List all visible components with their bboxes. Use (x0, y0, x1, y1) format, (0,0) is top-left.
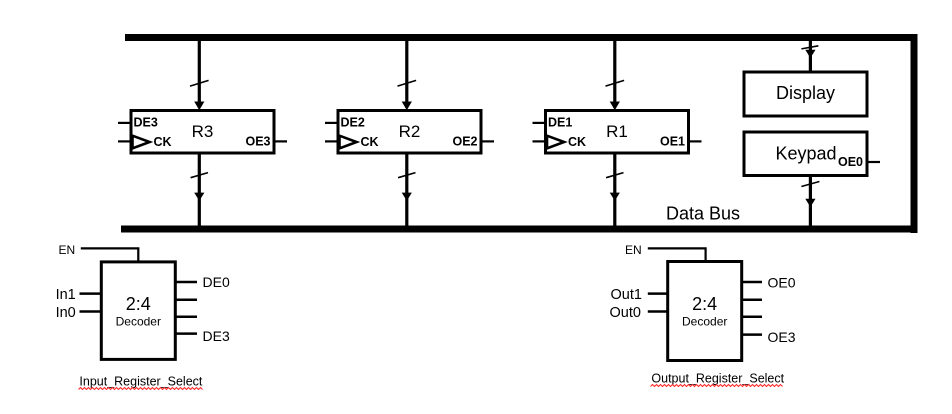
wire OE2 stub (742, 316, 762, 319)
svg-text:DE2: DE2 (341, 116, 365, 130)
svg-text:OE3: OE3 (245, 135, 270, 149)
block Display (744, 72, 867, 116)
svg-text:Keypad: Keypad (776, 144, 837, 164)
svg-text:R3: R3 (192, 122, 214, 141)
svg-text:DE3: DE3 (134, 116, 158, 130)
svg-text:Out0: Out0 (610, 305, 641, 321)
decoder Input_Register_Select (101, 262, 175, 360)
svg-text:OE0: OE0 (838, 155, 863, 169)
register R1 (533, 111, 702, 154)
svg-text:Data Bus: Data Bus (666, 204, 740, 224)
wire EN to output decoder (648, 248, 706, 261)
wire R2 output to bus (398, 153, 415, 226)
wire DE1 stub (175, 299, 197, 302)
svg-text:Output_Register_Select: Output_Register_Select (651, 372, 784, 386)
svg-text:In0: In0 (56, 305, 76, 321)
data bus right segment (911, 34, 918, 233)
wire OE1 stub (742, 299, 762, 302)
block Keypad (744, 132, 880, 176)
svg-text:Display: Display (776, 83, 835, 103)
svg-text:CK: CK (361, 135, 379, 149)
svg-text:Out1: Out1 (611, 287, 642, 303)
svg-text:DE0: DE0 (203, 274, 230, 290)
svg-text:2:4: 2:4 (692, 294, 717, 314)
wire In1 stub (80, 292, 102, 295)
svg-text:CK: CK (154, 135, 172, 149)
wire DE0 stub (175, 281, 197, 284)
wire OE3 stub (742, 333, 762, 336)
wire R1 output to bus (606, 153, 623, 226)
svg-text:Decoder: Decoder (116, 315, 161, 329)
wire bus to R2 input (398, 41, 417, 110)
register R3 (118, 111, 287, 154)
wire EN to input decoder (81, 248, 139, 262)
wire Out0 stub (648, 310, 668, 313)
wire Out1 stub (648, 292, 668, 295)
wire R3 output to bus (191, 153, 208, 226)
wire bus to R1 input (606, 41, 625, 110)
svg-text:OE3: OE3 (768, 329, 796, 345)
svg-text:OE0: OE0 (768, 274, 796, 290)
svg-text:R1: R1 (606, 122, 628, 141)
svg-text:DE1: DE1 (548, 116, 572, 130)
wire In0 stub (80, 310, 102, 313)
svg-text:2:4: 2:4 (126, 294, 151, 314)
svg-text:EN: EN (625, 243, 642, 257)
svg-text:Decoder: Decoder (682, 315, 727, 329)
data bus top segment (125, 34, 918, 41)
svg-text:OE1: OE1 (660, 135, 685, 149)
svg-text:In1: In1 (56, 287, 76, 303)
svg-text:DE3: DE3 (203, 328, 230, 344)
svg-text:CK: CK (568, 135, 586, 149)
wire DE2 stub (175, 316, 197, 319)
svg-text:Input_Register_Select: Input_Register_Select (79, 375, 203, 389)
svg-text:R2: R2 (399, 122, 421, 141)
wire bus to R3 input (190, 41, 209, 110)
wire bus to Display (801, 41, 818, 72)
caption Output_Register_Select (651, 372, 785, 387)
decoder Output_Register_Select (668, 262, 742, 361)
wire OE0 stub (742, 281, 762, 284)
svg-text:EN: EN (59, 243, 76, 257)
svg-text:OE2: OE2 (452, 135, 477, 149)
register R2 (325, 111, 494, 154)
wire DE3 stub (175, 332, 197, 335)
caption Input_Register_Select (79, 375, 203, 390)
data bus bottom segment (121, 226, 918, 233)
wire Keypad to bus (801, 176, 819, 226)
